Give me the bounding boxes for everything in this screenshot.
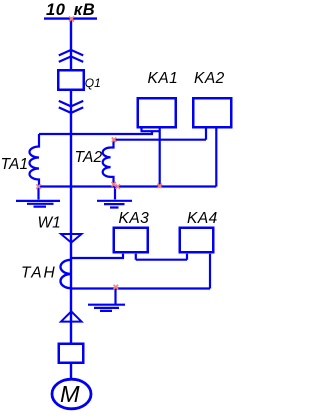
svg-text:TA2: TA2 xyxy=(75,149,103,166)
zero sequence transformer TAH xyxy=(60,260,71,288)
cable termination W1 lower triangle xyxy=(61,311,82,321)
withdrawable contact chevron upper 1 xyxy=(59,50,83,56)
junction TA2 top xyxy=(112,138,117,143)
relay KA1 xyxy=(138,98,176,127)
junction busbar xyxy=(69,17,74,22)
wire jog at KA1 terminal xyxy=(141,129,161,135)
wire TA2 top to relay KA2 xyxy=(114,139,206,141)
current transformer TA1 xyxy=(30,134,40,187)
relay KA3 xyxy=(114,228,148,253)
svg-text:10 кВ: 10 кВ xyxy=(46,1,95,19)
main vertical feeder wire xyxy=(70,19,72,385)
relay KA2 xyxy=(193,98,231,127)
ground of TAH circuit xyxy=(88,289,125,311)
fuse-switch box xyxy=(59,344,84,363)
wire TAH bottom return xyxy=(71,287,210,289)
withdrawable contact chevron upper 2 xyxy=(59,56,83,62)
busbar 10 kV xyxy=(44,17,97,19)
circuit breaker Q1 xyxy=(58,70,84,90)
svg-text:M: M xyxy=(60,381,80,407)
wire common return of TA1 TA2 secondaries xyxy=(39,185,217,187)
svg-text:W1: W1 xyxy=(38,215,61,232)
junction TA1 bottom xyxy=(36,184,41,189)
wire KA4 right terminal down xyxy=(209,254,211,289)
cable termination W1 upper triangle xyxy=(61,234,82,243)
wire TAH top to relay KA3 xyxy=(71,254,124,258)
ground of TA2 xyxy=(97,187,132,208)
svg-text:KA2: KA2 xyxy=(194,70,225,87)
motor M xyxy=(52,379,91,409)
ground of TA1 xyxy=(16,187,60,207)
svg-text:TA1: TA1 xyxy=(1,156,29,173)
wire KA2 right terminal down to common xyxy=(215,129,217,187)
junction TA2 bottom second xyxy=(116,184,121,189)
junction TAH ground xyxy=(114,285,119,290)
wire KA3 to KA4 xyxy=(136,254,187,260)
junction KA1 common xyxy=(157,184,162,189)
svg-text:KA1: KA1 xyxy=(148,70,179,87)
wire TA1 top to relay KA1 xyxy=(39,133,153,135)
withdrawable contact chevron lower 1 xyxy=(59,101,83,107)
relay KA4 xyxy=(180,228,214,253)
withdrawable contact chevron lower 2 xyxy=(59,107,83,113)
svg-text:KA3: KA3 xyxy=(119,210,150,227)
wire KA2 left terminal stub xyxy=(205,129,207,140)
svg-text:Q1: Q1 xyxy=(85,76,101,90)
wire KA1 right terminal down to common xyxy=(159,129,161,187)
junction TA2 bottom xyxy=(112,182,117,187)
svg-text:TAH: TAH xyxy=(21,265,57,282)
svg-text:KA4: KA4 xyxy=(187,210,218,227)
current transformer TA2 xyxy=(103,140,114,187)
